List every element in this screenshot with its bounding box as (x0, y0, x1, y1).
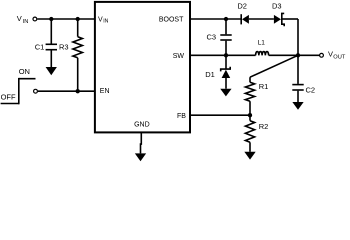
svg-text:V: V (328, 50, 333, 59)
svg-text:C2: C2 (306, 86, 316, 95)
svg-text:D3: D3 (272, 1, 282, 10)
svg-text:D1: D1 (205, 70, 215, 79)
svg-text:BOOST: BOOST (159, 17, 184, 24)
svg-text:OFF: OFF (1, 93, 16, 102)
svg-text:C1: C1 (35, 43, 45, 52)
svg-text:EN: EN (100, 88, 110, 95)
svg-text:R1: R1 (259, 82, 269, 91)
svg-text:R2: R2 (259, 122, 269, 131)
svg-text:IN: IN (103, 19, 108, 25)
svg-text:GND: GND (134, 122, 150, 129)
svg-text:V: V (17, 14, 22, 23)
svg-text:SW: SW (173, 53, 185, 60)
svg-text:IN: IN (23, 19, 29, 25)
svg-text:C3: C3 (207, 32, 217, 41)
svg-text:R3: R3 (59, 43, 69, 52)
svg-text:L1: L1 (258, 40, 266, 47)
svg-text:FB: FB (177, 113, 186, 120)
svg-text:D2: D2 (237, 1, 247, 10)
svg-text:OUT: OUT (333, 54, 346, 60)
svg-text:ON: ON (19, 67, 30, 76)
